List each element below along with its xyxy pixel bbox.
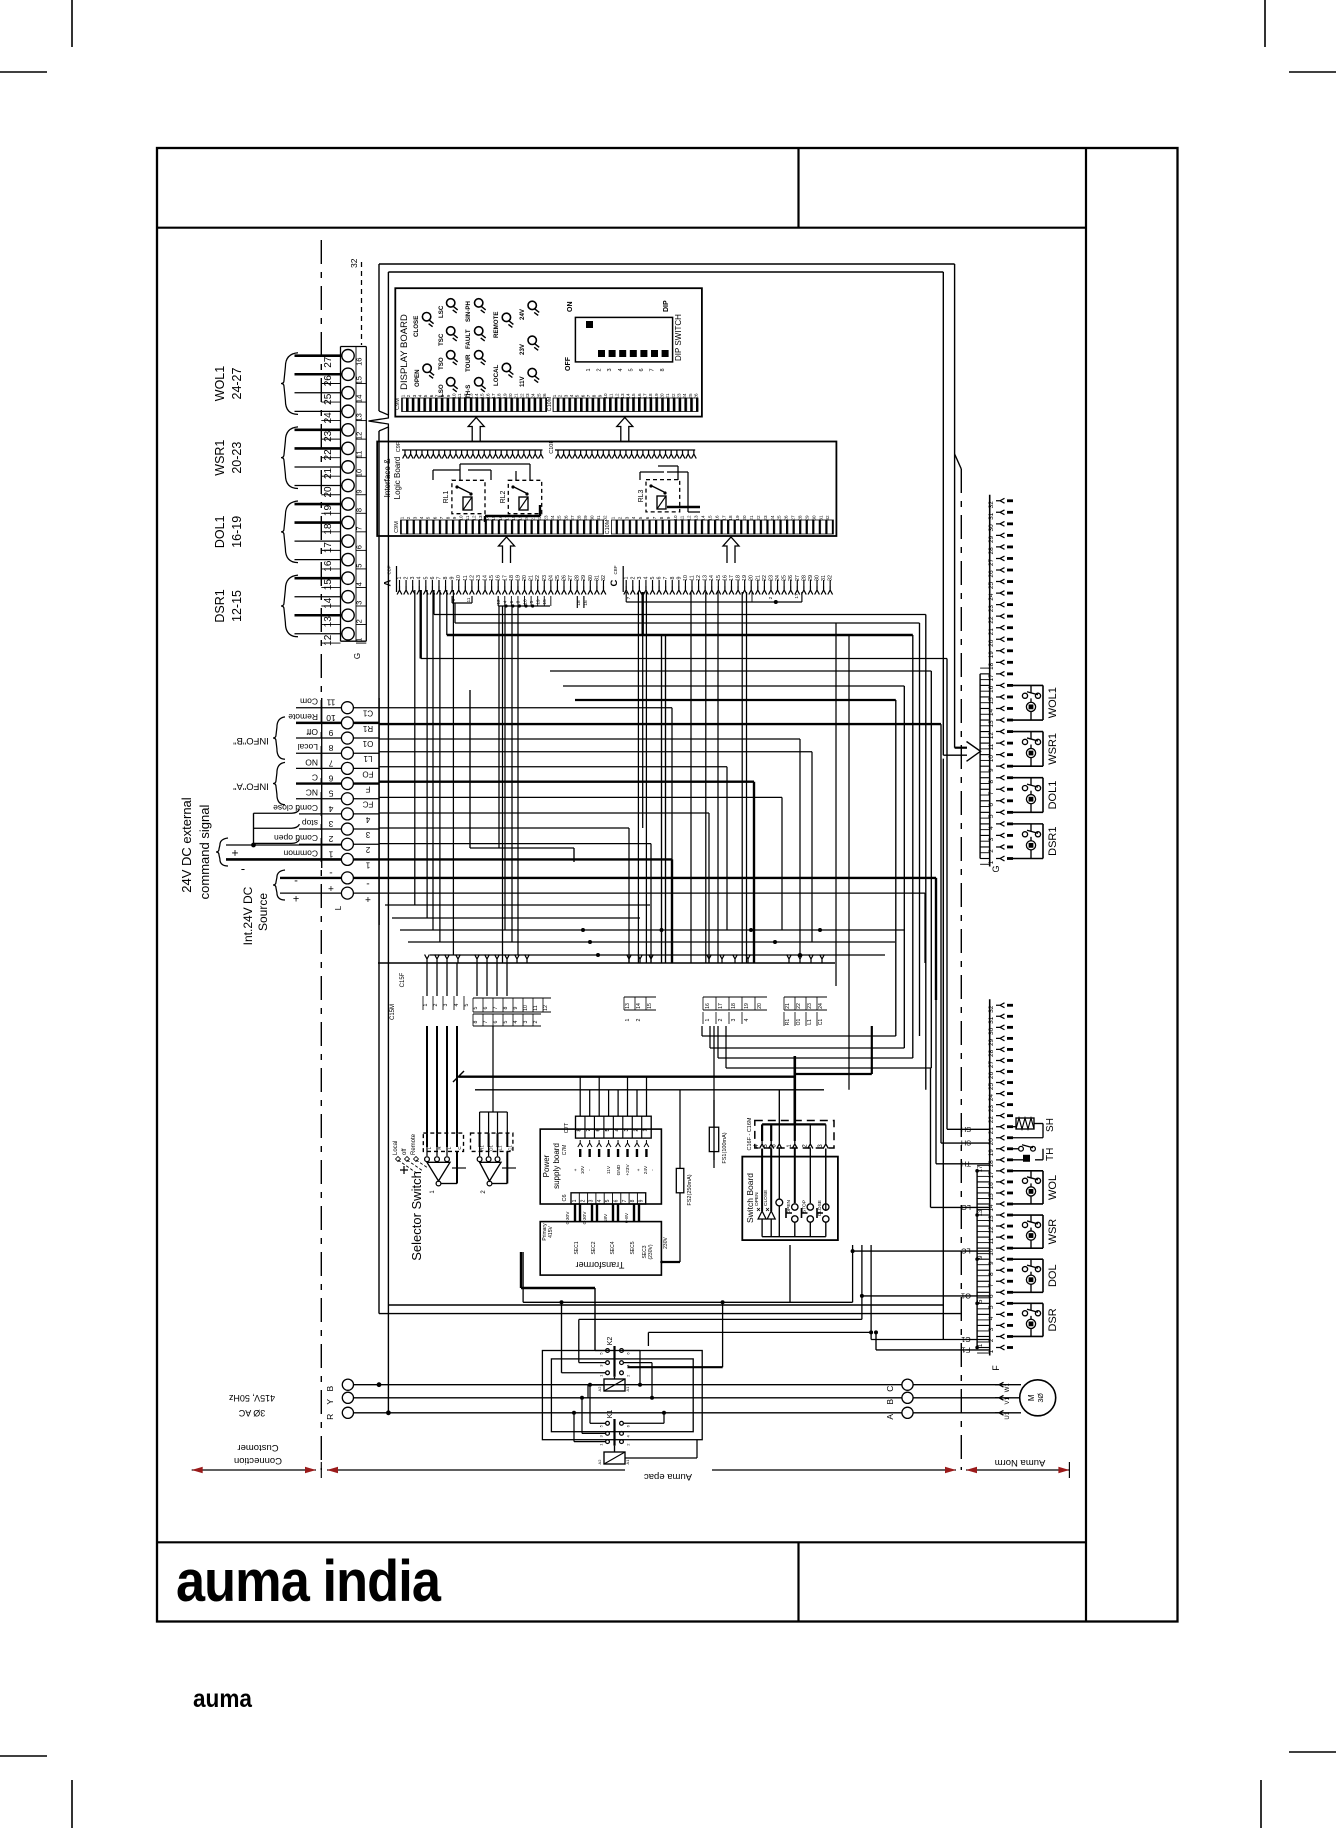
svg-text:C1: C1 bbox=[507, 1145, 512, 1151]
svg-text:10: 10 bbox=[451, 393, 456, 399]
svg-text:2: 2 bbox=[355, 619, 364, 623]
svg-text:DOL1: DOL1 bbox=[213, 515, 227, 548]
svg-text:5: 5 bbox=[605, 1128, 611, 1131]
svg-text:A: A bbox=[383, 579, 394, 586]
svg-text:20: 20 bbox=[742, 515, 747, 521]
relay RL3 dashed box bbox=[646, 480, 680, 512]
svg-text:19: 19 bbox=[735, 515, 740, 521]
LED FAULT bbox=[475, 327, 483, 335]
motor terminal forks bbox=[995, 1382, 1004, 1387]
svg-text:11: 11 bbox=[465, 515, 470, 520]
svg-text:3Ø AC: 3Ø AC bbox=[238, 1408, 265, 1418]
auma norm boundary dash line bbox=[960, 469, 962, 1470]
vertical drop A1 bold bbox=[420, 590, 422, 659]
svg-text:CBF: CBF bbox=[387, 565, 392, 574]
C16 internal bus bar bbox=[762, 1123, 826, 1125]
svg-text:11: 11 bbox=[466, 597, 472, 602]
svg-text:command signal: command signal bbox=[197, 805, 212, 900]
corner drop plus wire bbox=[924, 893, 926, 963]
junction dot on plus wire bbox=[251, 843, 256, 848]
svg-text:DIP: DIP bbox=[663, 300, 670, 312]
svg-text:R: R bbox=[325, 1414, 335, 1420]
F strip pin cell separators bbox=[977, 1341, 990, 1343]
svg-text:25: 25 bbox=[557, 515, 562, 521]
svg-text:LC: LC bbox=[961, 1247, 971, 1256]
svg-text:TH: TH bbox=[961, 1159, 971, 1168]
svg-text:19: 19 bbox=[535, 599, 541, 605]
left strip inner number separators bbox=[356, 642, 366, 644]
svg-text:5: 5 bbox=[988, 814, 995, 818]
K2 row connections bbox=[595, 1350, 606, 1352]
svg-text:6: 6 bbox=[429, 394, 434, 397]
svg-text:5: 5 bbox=[328, 789, 333, 799]
svg-text:32: 32 bbox=[825, 515, 830, 521]
svg-text:7: 7 bbox=[650, 368, 656, 371]
vertical riser minus bold bbox=[935, 878, 937, 1000]
svg-text:11: 11 bbox=[463, 575, 469, 581]
svg-text:17: 17 bbox=[978, 1165, 984, 1172]
svg-text:3: 3 bbox=[443, 1003, 449, 1006]
svg-text:NO: NO bbox=[305, 757, 318, 767]
svg-text:13: 13 bbox=[323, 616, 334, 628]
relay RL3 wiring bbox=[640, 471, 664, 473]
svg-text:3: 3 bbox=[624, 1128, 630, 1131]
right verticals extra bbox=[925, 615, 927, 1090]
transformer box bbox=[540, 1222, 661, 1276]
C16 feed thin bbox=[778, 1090, 780, 1125]
wire bus upper 1 bold bbox=[447, 634, 913, 636]
LED TOUR bbox=[475, 351, 483, 359]
svg-text:9: 9 bbox=[988, 768, 995, 772]
dimension line customer connection bbox=[192, 1469, 316, 1471]
svg-text:23: 23 bbox=[807, 1003, 813, 1009]
C15F fork pins group2 bbox=[627, 955, 632, 964]
svg-text:LSC: LSC bbox=[438, 305, 445, 318]
svg-text:9: 9 bbox=[452, 516, 457, 519]
bottom band divider bbox=[797, 1542, 799, 1621]
svg-text:Remote: Remote bbox=[288, 712, 318, 722]
svg-text:TOUR: TOUR bbox=[465, 354, 472, 372]
wires into power supply top pins bbox=[579, 1077, 581, 1117]
svg-text:C9M: C9M bbox=[394, 521, 400, 533]
selector group1 pins bbox=[426, 1133, 428, 1147]
svg-text:10: 10 bbox=[458, 515, 463, 521]
svg-text:INFO"A": INFO"A" bbox=[233, 781, 269, 792]
svg-text:24-27: 24-27 bbox=[230, 367, 244, 399]
dimension line auma norm bbox=[966, 1469, 1069, 1471]
external supply brace bbox=[216, 838, 228, 866]
svg-text:WOL1: WOL1 bbox=[1047, 687, 1059, 718]
C16F-C16M dashed connector box bbox=[755, 1121, 834, 1149]
control terminal circles bbox=[341, 853, 353, 865]
svg-text:4: 4 bbox=[503, 600, 509, 603]
svg-text:DISPLAY BOARD: DISPLAY BOARD bbox=[399, 314, 410, 390]
svg-text:FO: FO bbox=[362, 769, 373, 778]
svg-text:6: 6 bbox=[430, 576, 436, 579]
wire into fuse FS1 bbox=[713, 1026, 715, 1100]
wire bus upper 2 bbox=[421, 658, 947, 660]
vertical drops rail to C15M bbox=[426, 963, 428, 996]
svg-text:2: 2 bbox=[718, 1018, 724, 1021]
control terminal right rail bbox=[378, 698, 380, 925]
enclosure right edge inner bbox=[942, 272, 944, 755]
svg-text:18: 18 bbox=[988, 662, 995, 670]
svg-text:13: 13 bbox=[620, 393, 625, 399]
vertical double line data pair bbox=[661, 635, 663, 963]
svg-text:20: 20 bbox=[757, 1003, 763, 1009]
svg-text:A: A bbox=[885, 1414, 895, 1420]
svg-text:+: + bbox=[365, 893, 371, 904]
svg-text:14: 14 bbox=[636, 1003, 642, 1009]
wire C15M to right 4 bbox=[726, 1067, 931, 1069]
vertical drops from C row bbox=[637, 592, 639, 963]
DIP position 1 on bbox=[586, 321, 593, 328]
svg-text:1: 1 bbox=[397, 576, 403, 579]
LO vertical bbox=[930, 1068, 932, 1207]
svg-text:3: 3 bbox=[988, 837, 995, 841]
K2 coil wire to left bbox=[588, 1384, 604, 1386]
svg-text:20: 20 bbox=[988, 639, 995, 647]
svg-text:9: 9 bbox=[676, 576, 682, 579]
svg-text:4: 4 bbox=[631, 516, 636, 519]
svg-text:K2: K2 bbox=[607, 1337, 614, 1346]
switch board inner rail left bbox=[761, 1149, 763, 1212]
notch arrow into left strip pin 12 bbox=[369, 411, 389, 431]
LED OPEN bbox=[423, 364, 431, 372]
svg-text:Comd open: Comd open bbox=[274, 833, 318, 843]
output terminals A B C bbox=[902, 1379, 913, 1390]
svg-text:16: 16 bbox=[988, 1182, 995, 1190]
svg-text:12: 12 bbox=[988, 1226, 995, 1234]
relay RL3 contact bbox=[652, 486, 664, 492]
phase wire Y bbox=[354, 1397, 902, 1399]
svg-text:19: 19 bbox=[654, 393, 659, 399]
svg-text:WOL1: WOL1 bbox=[213, 366, 227, 401]
svg-text:7: 7 bbox=[652, 516, 657, 519]
fold mark bottom-left vertical bbox=[71, 1780, 73, 1828]
svg-text:26: 26 bbox=[694, 393, 699, 399]
C row sub-bracket bbox=[625, 592, 627, 602]
svg-text:12: 12 bbox=[614, 393, 619, 399]
selector group2 top bracket bbox=[492, 1026, 494, 1112]
svg-text:C10M: C10M bbox=[605, 519, 611, 534]
svg-text:WSR1: WSR1 bbox=[213, 440, 227, 476]
svg-text:13: 13 bbox=[355, 413, 364, 421]
svg-text:17: 17 bbox=[988, 674, 995, 682]
svg-text:4: 4 bbox=[618, 368, 624, 371]
svg-text:9: 9 bbox=[597, 394, 602, 397]
svg-text:7: 7 bbox=[622, 1199, 628, 1202]
svg-text:C9M: C9M bbox=[395, 398, 401, 410]
svg-text:17: 17 bbox=[323, 542, 334, 554]
svg-text:30: 30 bbox=[988, 1027, 995, 1035]
svg-text:Y: Y bbox=[325, 1399, 335, 1405]
svg-text:A1: A1 bbox=[625, 1386, 630, 1392]
selector group2 contacts bbox=[479, 1147, 481, 1156]
svg-text:A1: A1 bbox=[625, 1459, 630, 1465]
svg-text:14: 14 bbox=[355, 395, 364, 403]
svg-text:12: 12 bbox=[496, 599, 502, 605]
svg-text:RL3: RL3 bbox=[638, 489, 645, 502]
svg-text:A2: A2 bbox=[597, 1386, 602, 1392]
svg-text:32: 32 bbox=[988, 1005, 995, 1013]
svg-text:2: 2 bbox=[617, 516, 622, 519]
svg-text:REMOTE: REMOTE bbox=[493, 312, 500, 338]
svg-text:WSR1: WSR1 bbox=[1047, 733, 1059, 765]
svg-text:23: 23 bbox=[988, 1105, 995, 1113]
svg-text:O1: O1 bbox=[796, 1018, 802, 1025]
svg-text:9: 9 bbox=[513, 1006, 519, 1009]
selector group2 wiper link bbox=[492, 1183, 507, 1185]
G coil group DSR1 bbox=[1011, 823, 1043, 825]
svg-text:7: 7 bbox=[483, 1020, 489, 1023]
svg-text:11: 11 bbox=[457, 393, 462, 398]
svg-text:C1: C1 bbox=[362, 709, 373, 718]
svg-text:4: 4 bbox=[988, 826, 995, 830]
selector group1 wiper link bbox=[441, 1183, 457, 1185]
svg-text:5: 5 bbox=[650, 576, 656, 579]
svg-text:22: 22 bbox=[988, 616, 995, 624]
svg-text:15: 15 bbox=[480, 393, 485, 399]
mating arrow interface-C bbox=[723, 537, 739, 563]
svg-text:2: 2 bbox=[406, 516, 411, 519]
svg-text:G: G bbox=[353, 653, 362, 659]
G strip body rail bbox=[989, 495, 991, 867]
svg-text:8: 8 bbox=[577, 1128, 583, 1131]
svg-text:22: 22 bbox=[756, 515, 761, 521]
switch board aux contact bbox=[778, 1149, 780, 1200]
routing wire L2 bbox=[579, 1318, 862, 1320]
svg-text:27: 27 bbox=[323, 356, 334, 368]
svg-text:2: 2 bbox=[768, 596, 774, 599]
svg-text:+: + bbox=[637, 1168, 642, 1171]
svg-text:19: 19 bbox=[323, 505, 334, 517]
svg-text:17: 17 bbox=[718, 1003, 724, 1009]
svg-text:26: 26 bbox=[988, 1072, 995, 1080]
K2 bold output bbox=[628, 1366, 723, 1368]
display board connector C10M comb bbox=[553, 398, 698, 412]
svg-text:CLOSE: CLOSE bbox=[763, 1190, 769, 1206]
svg-text:24: 24 bbox=[988, 593, 995, 601]
svg-text:23: 23 bbox=[677, 393, 682, 399]
G strip pin cell separators bbox=[980, 852, 990, 854]
svg-text:13: 13 bbox=[988, 720, 995, 728]
svg-text:14: 14 bbox=[626, 393, 631, 399]
svg-text:W1: W1 bbox=[1005, 1383, 1011, 1393]
svg-text:14: 14 bbox=[988, 708, 995, 716]
svg-text:CLOSE: CLOSE bbox=[413, 316, 420, 337]
svg-text:DSR1: DSR1 bbox=[213, 589, 227, 622]
svg-text:3: 3 bbox=[412, 394, 417, 397]
selector group2 crossbar bbox=[502, 1167, 516, 1169]
corner drop L1 wire bbox=[811, 752, 813, 942]
corner drop 3 wire bbox=[628, 828, 630, 963]
svg-text:21: 21 bbox=[785, 1003, 791, 1009]
svg-text:23: 23 bbox=[763, 515, 768, 521]
svg-text:17: 17 bbox=[721, 515, 726, 521]
svg-text:9: 9 bbox=[446, 394, 451, 397]
svg-text:C7M: C7M bbox=[562, 1145, 568, 1156]
DIP positions 2-8 off bbox=[598, 350, 605, 357]
svg-text:13: 13 bbox=[625, 1003, 631, 1009]
wire C1 terminal bbox=[379, 707, 672, 709]
svg-text:1: 1 bbox=[400, 516, 405, 519]
svg-text:OPEN: OPEN bbox=[754, 1192, 760, 1206]
svg-text:C1: C1 bbox=[818, 1019, 824, 1026]
svg-text:TSC: TSC bbox=[438, 333, 445, 346]
selector group2 pins bbox=[479, 1133, 481, 1147]
wire O1 terminal bbox=[379, 738, 800, 740]
enclosure outer right edge bbox=[954, 264, 956, 748]
svg-text:K1: K1 bbox=[607, 1410, 614, 1419]
lower cluster wire 3 bbox=[400, 929, 905, 931]
selector plus cross bbox=[400, 1166, 408, 1174]
svg-text:22: 22 bbox=[519, 393, 524, 399]
wire FO terminal bbox=[379, 766, 727, 768]
svg-text:21: 21 bbox=[514, 393, 519, 399]
svg-text:27: 27 bbox=[988, 1060, 995, 1068]
svg-text:21: 21 bbox=[988, 628, 995, 636]
svg-text:32: 32 bbox=[349, 258, 359, 268]
hook to Comd close bbox=[254, 809, 300, 813]
svg-text:-: - bbox=[329, 867, 332, 878]
svg-text:7: 7 bbox=[988, 791, 995, 795]
svg-text:4: 4 bbox=[744, 1018, 750, 1021]
K1 row connections bbox=[589, 1385, 591, 1424]
svg-text:17: 17 bbox=[643, 393, 648, 399]
C15F fork pins group3 bbox=[707, 955, 712, 964]
A row sub-bracket 9-11 bbox=[451, 596, 453, 603]
LED LSO bbox=[447, 378, 455, 386]
svg-text:2: 2 bbox=[636, 1018, 642, 1021]
svg-text:Interface &: Interface & bbox=[383, 458, 392, 497]
svg-text:C7T: C7T bbox=[564, 1122, 570, 1133]
svg-text:415V: 415V bbox=[548, 1226, 554, 1238]
routing wire L1 bbox=[523, 1301, 853, 1303]
svg-text:2: 2 bbox=[365, 845, 370, 854]
svg-text:18: 18 bbox=[497, 393, 502, 399]
fuse FS1 100mA bbox=[709, 1127, 718, 1151]
svg-text:7: 7 bbox=[434, 394, 439, 397]
svg-text:Auma Norm: Auma Norm bbox=[995, 1457, 1046, 1468]
svg-text:1: 1 bbox=[988, 860, 995, 864]
svg-text:RL2: RL2 bbox=[500, 490, 507, 503]
wire horizontal 1089 bbox=[475, 1089, 824, 1091]
brace group DSR1 bbox=[281, 575, 298, 637]
svg-text:8: 8 bbox=[660, 368, 666, 371]
G coil group DOL1 bbox=[1011, 777, 1043, 779]
svg-text:+: + bbox=[328, 882, 334, 893]
svg-text:23: 23 bbox=[323, 430, 334, 442]
svg-text:8: 8 bbox=[440, 394, 445, 397]
svg-text:20: 20 bbox=[524, 515, 529, 521]
enclosure outer box bbox=[379, 263, 955, 265]
svg-text:13: 13 bbox=[694, 515, 699, 521]
svg-text:18: 18 bbox=[511, 515, 516, 521]
svg-text:4: 4 bbox=[417, 576, 423, 579]
svg-text:19: 19 bbox=[988, 1149, 995, 1157]
lower cluster wire 2 bbox=[392, 917, 640, 919]
title band bottom rule bbox=[157, 227, 1086, 229]
svg-text:SIN-PH: SIN-PH bbox=[465, 300, 472, 322]
svg-text:24: 24 bbox=[770, 515, 775, 521]
svg-text:8: 8 bbox=[355, 508, 364, 512]
control terminal left rail bbox=[321, 698, 323, 868]
LED TH-S bbox=[475, 378, 483, 386]
C15F fork pins group4 bbox=[787, 955, 792, 964]
svg-text:7: 7 bbox=[663, 576, 669, 579]
svg-text:14: 14 bbox=[485, 515, 490, 521]
stair step wire bbox=[470, 847, 574, 849]
selector group2 dashed box bbox=[471, 1133, 513, 1151]
svg-text:18: 18 bbox=[648, 393, 653, 399]
motor feed wires bbox=[913, 1384, 1021, 1386]
wire L1 terminal bbox=[379, 751, 812, 753]
LED 11V bbox=[528, 368, 536, 376]
svg-text:ON: ON bbox=[567, 302, 574, 313]
svg-text:F: F bbox=[991, 1365, 1001, 1371]
svg-text:5: 5 bbox=[605, 1199, 611, 1202]
svg-text:25: 25 bbox=[988, 582, 995, 590]
svg-text:stop: stop bbox=[302, 818, 318, 828]
svg-text:19: 19 bbox=[502, 393, 507, 399]
svg-text:14: 14 bbox=[700, 515, 705, 521]
svg-text:RL1: RL1 bbox=[443, 490, 450, 503]
svg-text:17: 17 bbox=[988, 1171, 995, 1179]
F strip body rail bbox=[989, 999, 991, 1355]
corner drop O1 wire bbox=[799, 739, 801, 955]
lower cluster wire 5 bbox=[430, 954, 885, 956]
svg-text:6: 6 bbox=[580, 394, 585, 397]
svg-text:27: 27 bbox=[791, 515, 796, 521]
svg-text:19: 19 bbox=[517, 515, 522, 521]
svg-text:28: 28 bbox=[798, 515, 803, 521]
svg-text:22: 22 bbox=[671, 393, 676, 399]
fold mark bottom-right horizontal bbox=[1289, 1751, 1336, 1753]
svg-text:TSO: TSO bbox=[438, 357, 445, 370]
svg-text:26: 26 bbox=[323, 375, 334, 387]
svg-text:off: off bbox=[402, 1148, 408, 1155]
relay RL1 dashed box bbox=[452, 480, 485, 513]
svg-text:19: 19 bbox=[744, 1003, 750, 1009]
svg-text:20: 20 bbox=[508, 393, 513, 399]
svg-text:Logic Board: Logic Board bbox=[393, 457, 402, 500]
C16 feed bold bbox=[793, 1056, 796, 1124]
LED 24V bbox=[528, 301, 536, 309]
svg-text:V1: V1 bbox=[1005, 1396, 1011, 1404]
svg-text:3: 3 bbox=[637, 576, 643, 579]
selector crossbar bbox=[452, 1167, 466, 1169]
fold mark top-left vertical bbox=[71, 0, 73, 47]
interface C10F fork row bbox=[555, 449, 695, 451]
mating arrow display-interface left bbox=[468, 418, 484, 442]
svg-text:DIP SWITCH: DIP SWITCH bbox=[674, 314, 683, 361]
internal source brace bbox=[273, 870, 285, 900]
svg-text:15: 15 bbox=[491, 515, 496, 521]
A row sub-bracket 16-24 bbox=[497, 596, 499, 606]
svg-text:415V, 50Hz: 415V, 50Hz bbox=[228, 1393, 275, 1403]
upper bus y614 bbox=[434, 614, 926, 616]
svg-text:O1: O1 bbox=[362, 739, 373, 748]
relay RL3 output bold wire bbox=[667, 506, 700, 508]
relay RL1 wiring bbox=[433, 469, 460, 471]
svg-text:Local: Local bbox=[298, 742, 318, 752]
svg-text:12: 12 bbox=[543, 1005, 549, 1011]
svg-text:6: 6 bbox=[614, 1199, 620, 1202]
switch board bottom bus bbox=[762, 1236, 826, 1238]
control terminal left wires bbox=[296, 798, 341, 800]
svg-text:12: 12 bbox=[472, 515, 477, 521]
